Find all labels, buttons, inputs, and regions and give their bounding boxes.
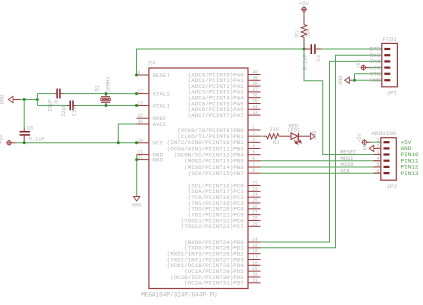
svg-text:PIN13: PIN13 <box>401 171 419 177</box>
svg-text:C3: C3 <box>316 55 322 61</box>
IC4 pin 40 (ADC0/PCINT0)PA0 <box>248 74 261 76</box>
wire C10 to XTAL1 <box>76 105 136 107</box>
ground symbol at JP2 pin2 <box>369 145 374 151</box>
svg-text:4: 4 <box>376 156 379 162</box>
wire GND pins to ground <box>136 155 138 197</box>
IC4 pin 3 (INT2/AIN0/PCINT10)PB2 <box>248 141 261 143</box>
svg-text:330: 330 <box>269 127 279 133</box>
svg-text:+5V: +5V <box>356 59 362 68</box>
svg-text:VCC: VCC <box>370 65 381 71</box>
resistor R1 10k <box>303 11 305 24</box>
wire to C9 left <box>37 93 54 95</box>
svg-text:+5V: +5V <box>0 134 5 144</box>
JP2 pin 1 <box>384 141 390 143</box>
node crystal top junction <box>105 92 108 95</box>
IC4 pin 24 (TCK/PCINT18)PC2 <box>248 196 261 198</box>
JP2 pin 3 <box>384 153 390 155</box>
wire MOSI PB5 to JP2 <box>261 160 381 162</box>
capacitor C10 22pF <box>67 105 70 107</box>
svg-text:GND: GND <box>338 76 344 85</box>
svg-text:6: 6 <box>376 168 379 174</box>
IC4 pin 27 (TDI/PCINT21)PC5 <box>248 214 261 216</box>
wire RESET down to JP2 pin3 <box>304 49 381 155</box>
svg-text:GND: GND <box>363 141 369 150</box>
svg-text:RESET: RESET <box>340 150 357 156</box>
capacitor C6 0.1uF <box>23 100 25 128</box>
IC4 pin 26 (TDO/PCINT20)PC4 <box>248 208 261 210</box>
svg-text:IC4: IC4 <box>148 60 156 67</box>
IC4 pin 15 (TXD0/PCINT25)PD1 <box>248 247 261 249</box>
IC4 pin 32 AREF <box>137 117 149 119</box>
JP2 pin 6 <box>384 172 390 174</box>
svg-text:3: 3 <box>376 150 379 156</box>
node junction GND branch <box>36 98 39 101</box>
svg-text:5: 5 <box>376 162 379 168</box>
svg-text:GND: GND <box>0 95 6 105</box>
wire PD0 RXD0 to FTDI TXO <box>261 61 382 242</box>
svg-text:30: 30 <box>138 119 143 125</box>
JP1 pin DTR <box>384 48 390 50</box>
svg-text:10: 10 <box>138 138 143 144</box>
ground symbol at JP1 <box>345 77 350 83</box>
svg-text:29: 29 <box>252 221 257 227</box>
JP1 pin RXI <box>384 54 390 56</box>
node GND pin junction <box>135 158 138 161</box>
svg-text:5: 5 <box>252 150 255 156</box>
capacitor C9 22pF <box>55 93 57 95</box>
IC4 pin 38 (ADC2/PCINT2)PA2 <box>248 85 261 87</box>
svg-text:R1: R1 <box>295 30 301 36</box>
supply +5V symbol at JP2 pin1 <box>362 139 368 145</box>
wire to C10 left <box>37 105 67 107</box>
IC4 pin 7 (MISO/PCINT14)PB6 <box>248 166 261 168</box>
svg-text:C6: C6 <box>27 125 33 131</box>
svg-text:MOSI: MOSI <box>341 156 354 162</box>
svg-text:16MHz: 16MHz <box>105 76 111 92</box>
LED LED1 RED <box>291 133 298 140</box>
svg-text:(ADC7/PCINT7)PA7: (ADC7/PCINT7)PA7 <box>188 112 244 119</box>
capacitor C3 0.1uF <box>304 48 310 50</box>
IC4 pin 14 (RXD0/PCINT24)PD0 <box>248 241 261 243</box>
node XTAL2 pin junction <box>135 92 138 95</box>
svg-text:VCC: VCC <box>153 140 164 147</box>
IC4 pin 5 (OC0B/SS/PCINT12)PB4 <box>248 154 261 156</box>
svg-text:0.1uF: 0.1uF <box>29 137 45 143</box>
JP2 pin 4 <box>384 160 390 162</box>
IC4 pin 30 AVCC <box>137 123 149 125</box>
IC4 pin 12 XTAL2 <box>137 93 149 95</box>
node R1/C3/RESET junction <box>303 48 306 51</box>
svg-text:GND: GND <box>132 202 142 208</box>
svg-text:1: 1 <box>376 138 379 144</box>
svg-text:CTS: CTS <box>370 72 381 78</box>
JP2 pin 5 <box>384 166 390 168</box>
IC4 pin 11 GND <box>137 154 149 156</box>
svg-text:8: 8 <box>252 168 255 174</box>
svg-text:2: 2 <box>376 144 379 150</box>
svg-text:12: 12 <box>138 89 143 95</box>
svg-text:GND: GND <box>312 130 318 139</box>
node AVCC branch junction <box>117 141 120 144</box>
svg-text:JP1: JP1 <box>387 89 398 96</box>
svg-text:+5V: +5V <box>401 140 413 146</box>
IC4 pin 16 (RXD1/INT0/PCINT26)PD2 <box>248 253 261 255</box>
IC4 pin 22 (SCL/PCINT16)PC0 <box>248 185 261 187</box>
svg-text:MISO: MISO <box>341 162 354 168</box>
IC4 pin 2 (CLKO/T1/PCINT9)PB1 <box>248 135 261 137</box>
IC4 pin 6 (MOSI/PCINT13)PB5 <box>248 160 261 162</box>
svg-text:+5V: +5V <box>357 133 363 142</box>
svg-text:2: 2 <box>252 131 255 137</box>
node JP1 GND junction <box>353 79 356 82</box>
wire PB1 to R3 <box>261 135 264 137</box>
IC4 pin 34 (ADC6/PCINT6)PA6 <box>248 108 261 110</box>
svg-text:JP2: JP2 <box>386 183 397 190</box>
IC4 pin 1 (XCK0/T0/PCINT8)PB0 <box>248 129 261 131</box>
wire LED cathode to ground <box>298 135 310 137</box>
svg-text:PIN12: PIN12 <box>401 165 419 171</box>
IC4 pin 33 (ADC7/PCINT7)PA7 <box>248 114 261 116</box>
svg-text:13: 13 <box>138 101 143 107</box>
svg-text:TXO: TXO <box>370 59 381 65</box>
node crystal bottom junction <box>105 104 108 107</box>
svg-text:LED1: LED1 <box>287 127 300 133</box>
wire SCK PB7 to JP2 <box>261 172 381 174</box>
wire JP1 GND/CTS <box>352 79 382 81</box>
svg-text:C9: C9 <box>53 100 59 106</box>
IC4 pin 10 VCC <box>137 142 149 144</box>
IC4 pin 8 (SCK/PCINT15)PB7 <box>248 172 261 174</box>
node VCC pin junction <box>135 141 138 144</box>
wire PD1 TXD0 to FTDI RXI <box>261 55 382 248</box>
ground symbol right of LED1 <box>310 133 315 139</box>
IC4 pin 31 GND <box>137 159 149 161</box>
svg-text:PIN11: PIN11 <box>401 158 419 164</box>
IC4 pin 4 (OC0A/AIN1/PCINT11)PB3 <box>248 148 261 150</box>
IC4 pin 17 (TXD1/INT1/PCINT27)PD3 <box>248 258 261 260</box>
svg-text:3: 3 <box>252 137 255 143</box>
wire branch vertical to C9/C10 rows <box>36 94 38 106</box>
supply +5V symbol left <box>6 140 12 146</box>
wire RESET riser and top rail <box>137 49 305 75</box>
svg-text:PIN10: PIN10 <box>401 152 419 158</box>
svg-text:4: 4 <box>252 144 255 150</box>
JP1 pin CTS <box>384 73 390 75</box>
svg-text:(TOSC2/PCINT23)PC7: (TOSC2/PCINT23)PC7 <box>181 223 244 230</box>
IC4 pin 21 (OC2A/PCINT31)PD7 <box>248 282 261 284</box>
IC4 pin 20 (OC2B/ICP/PCINT30)PD6 <box>248 276 261 278</box>
IC4 pin 23 (SDA/PCINT17)PC1 <box>248 190 261 192</box>
svg-text:DTR: DTR <box>370 47 382 53</box>
wire AVCC branch <box>118 124 136 143</box>
node junction GND-C6 <box>23 98 26 101</box>
svg-text:XTAL1: XTAL1 <box>153 102 171 109</box>
svg-text:10k: 10k <box>305 28 311 38</box>
wire C9 to XTAL2 <box>64 93 137 95</box>
svg-text:SCK: SCK <box>340 168 350 174</box>
svg-text:(SCK/PCINT15)PB7: (SCK/PCINT15)PB7 <box>188 170 244 177</box>
wire C3 to FTDI DTR <box>322 48 382 50</box>
IC4 pin 9 RESET <box>137 74 149 76</box>
svg-text:RESET: RESET <box>153 72 171 79</box>
svg-text:33: 33 <box>252 110 257 116</box>
wire MISO PB6 to JP2 <box>261 166 381 168</box>
svg-text:31: 31 <box>138 155 143 161</box>
supply +5V symbol above R1 <box>301 6 307 12</box>
JP2 pin 2 <box>384 147 390 149</box>
svg-text:ARDUINO: ARDUINO <box>371 130 397 137</box>
svg-text:GND: GND <box>153 156 164 163</box>
IC4 pin 29 (TOSC2/PCINT23)PC7 <box>248 225 261 227</box>
svg-text:GND: GND <box>370 78 381 84</box>
node XTAL1 pin junction <box>135 104 138 107</box>
resistor R3 330 <box>263 135 266 137</box>
IC4 pin 35 (ADC5/PCINT5)PA5 <box>248 103 261 105</box>
JP1 pin TXO <box>384 60 390 62</box>
svg-text:7: 7 <box>252 162 255 168</box>
svg-text:1: 1 <box>252 125 255 131</box>
svg-text:(OC2A/PCINT31)PD7: (OC2A/PCINT31)PD7 <box>184 280 244 287</box>
svg-text:Q1: Q1 <box>94 85 100 91</box>
crystal Q1 16MHz <box>105 94 107 97</box>
IC4 pin 13 XTAL1 <box>137 105 149 107</box>
svg-text:MEGA164P/324P/644P-PU: MEGA164P/324P/644P-PU <box>141 292 217 299</box>
ground symbol top-left <box>8 96 13 102</box>
IC4 pin 18 (XCK1/OC1B/PCINT28)PD4 <box>248 264 261 266</box>
svg-text:RXI: RXI <box>370 53 381 59</box>
ground symbol below IC <box>134 197 140 202</box>
svg-text:22pF: 22pF <box>61 104 67 117</box>
connector JP1 FTDI box <box>382 43 398 86</box>
connector JP2 ARDUINO box <box>381 138 397 181</box>
wire +5V rail to VCC <box>16 142 137 144</box>
IC4 pin 37 (ADC3/PCINT3)PA3 <box>248 91 261 93</box>
node C6 +5V junction <box>23 141 26 144</box>
svg-text:21: 21 <box>252 278 257 284</box>
svg-text:FTDI: FTDI <box>383 36 397 43</box>
IC4 pin 19 (OC1A/PCINT29)PD5 <box>248 270 261 272</box>
svg-text:6: 6 <box>252 156 255 162</box>
JP1 pin VCC <box>384 67 390 69</box>
svg-text:+5V: +5V <box>299 1 309 7</box>
IC4 pin 36 (ADC4/PCINT4)PA4 <box>248 97 261 99</box>
IC4 pin 39 (ADC1/PCINT1)PA1 <box>248 79 261 81</box>
node RESET pin junction <box>135 74 138 77</box>
svg-text:R3: R3 <box>273 140 279 146</box>
JP1 pin GND <box>384 79 390 81</box>
svg-text:GND: GND <box>401 146 412 152</box>
supply +5V symbol at JP1 VCC <box>361 65 367 71</box>
IC4 pin 28 (TOSC1/PCINT22)PC6 <box>248 219 261 221</box>
wire GND rail to cap branch <box>21 99 38 101</box>
svg-text:XTAL2: XTAL2 <box>153 90 171 97</box>
IC4 pin 25 (TMS/PCINT19)PC3 <box>248 202 261 204</box>
svg-text:AVCC: AVCC <box>153 121 168 128</box>
microcontroller IC4 MEGA164P/324P/644P box <box>149 68 248 289</box>
svg-text:C10: C10 <box>71 106 77 116</box>
